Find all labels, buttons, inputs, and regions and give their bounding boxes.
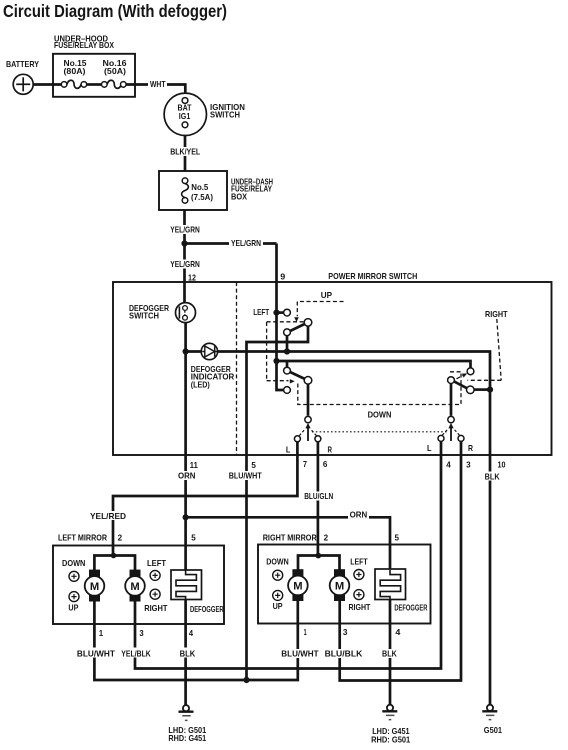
svg-text:YEL/GRN: YEL/GRN xyxy=(170,259,200,269)
svg-text:BLK: BLK xyxy=(382,649,398,659)
svg-text:BLU/WHT: BLU/WHT xyxy=(229,471,263,481)
svg-text:5: 5 xyxy=(251,460,256,470)
svg-text:BLU/WHT: BLU/WHT xyxy=(281,649,319,659)
svg-text:UP: UP xyxy=(321,290,333,300)
svg-text:R: R xyxy=(328,445,333,455)
svg-text:BLU/WHT: BLU/WHT xyxy=(77,649,116,659)
svg-text:LEFT: LEFT xyxy=(253,307,270,317)
svg-text:UP: UP xyxy=(273,601,283,611)
svg-text:BLU/GLN: BLU/GLN xyxy=(304,491,333,501)
svg-text:DEFOGGER: DEFOGGER xyxy=(190,605,224,614)
svg-text:5: 5 xyxy=(191,533,196,543)
svg-text:SWITCH: SWITCH xyxy=(210,109,240,119)
svg-text:11: 11 xyxy=(190,460,198,470)
svg-text:3: 3 xyxy=(466,460,471,470)
svg-text:BLK/YEL: BLK/YEL xyxy=(170,146,200,156)
svg-text:4: 4 xyxy=(446,460,451,470)
svg-text:(LED): (LED) xyxy=(191,379,210,389)
svg-text:12: 12 xyxy=(188,272,196,282)
svg-text:4: 4 xyxy=(189,628,193,638)
svg-text:2: 2 xyxy=(118,533,123,543)
svg-text:L: L xyxy=(286,445,291,455)
svg-text:RIGHT: RIGHT xyxy=(144,603,168,613)
svg-text:1: 1 xyxy=(304,627,307,637)
svg-text:M: M xyxy=(335,581,344,593)
svg-text:4: 4 xyxy=(395,627,400,637)
svg-text:(80A): (80A) xyxy=(64,66,86,76)
svg-text:3: 3 xyxy=(343,627,348,637)
svg-text:YEL/GRN: YEL/GRN xyxy=(170,225,200,235)
svg-text:M: M xyxy=(293,581,302,593)
svg-text:BLK: BLK xyxy=(180,649,196,659)
svg-text:YEL/BLK: YEL/BLK xyxy=(121,649,151,659)
svg-text:RIGHT: RIGHT xyxy=(349,602,371,612)
svg-text:ORN: ORN xyxy=(350,510,368,520)
svg-text:5: 5 xyxy=(395,533,400,543)
svg-text:DEFOGGER: DEFOGGER xyxy=(394,603,427,612)
svg-text:BLK: BLK xyxy=(485,472,501,482)
svg-text:9: 9 xyxy=(280,272,285,282)
svg-text:G501: G501 xyxy=(484,725,502,735)
svg-text:RIGHT MIRROR: RIGHT MIRROR xyxy=(263,533,317,543)
svg-text:RHD: G501: RHD: G501 xyxy=(371,735,410,745)
svg-text:M: M xyxy=(130,581,139,593)
svg-text:RIGHT: RIGHT xyxy=(485,309,508,319)
svg-text:7: 7 xyxy=(303,459,307,469)
svg-text:POWER MIRROR SWITCH: POWER MIRROR SWITCH xyxy=(328,271,417,281)
svg-text:BATTERY: BATTERY xyxy=(6,59,39,69)
svg-text:WHT: WHT xyxy=(150,79,166,89)
svg-text:DOWN: DOWN xyxy=(266,556,288,566)
svg-text:M: M xyxy=(90,581,99,593)
svg-text:Circuit Diagram (With defogger: Circuit Diagram (With defogger) xyxy=(3,1,227,21)
svg-text:R: R xyxy=(468,443,473,453)
svg-text:BOX: BOX xyxy=(231,192,247,202)
svg-text:(50A): (50A) xyxy=(104,66,126,76)
svg-text:SWITCH: SWITCH xyxy=(129,311,159,321)
svg-text:DOWN: DOWN xyxy=(62,558,85,568)
svg-text:RHD: G451: RHD: G451 xyxy=(168,733,206,743)
svg-text:3: 3 xyxy=(139,628,144,638)
svg-text:No.5: No.5 xyxy=(191,182,208,192)
svg-text:LEFT: LEFT xyxy=(350,557,368,567)
svg-text:FUSE/RELAY BOX: FUSE/RELAY BOX xyxy=(54,40,114,50)
svg-text:DOWN: DOWN xyxy=(368,410,392,420)
svg-text:ORN: ORN xyxy=(178,471,196,481)
svg-text:YEL/RED: YEL/RED xyxy=(90,511,126,521)
svg-text:L: L xyxy=(427,443,432,453)
svg-text:YEL/GRN: YEL/GRN xyxy=(231,238,261,248)
svg-text:2: 2 xyxy=(324,533,329,543)
svg-text:1: 1 xyxy=(99,628,103,638)
svg-text:IG1: IG1 xyxy=(179,111,191,121)
svg-text:LEFT MIRROR: LEFT MIRROR xyxy=(58,533,107,543)
svg-text:BLU/BLK: BLU/BLK xyxy=(325,649,364,659)
svg-text:10: 10 xyxy=(498,460,506,470)
svg-text:LEFT: LEFT xyxy=(147,558,167,568)
svg-text:UP: UP xyxy=(68,603,78,613)
svg-text:6: 6 xyxy=(323,459,328,469)
svg-text:(7.5A): (7.5A) xyxy=(191,192,213,202)
